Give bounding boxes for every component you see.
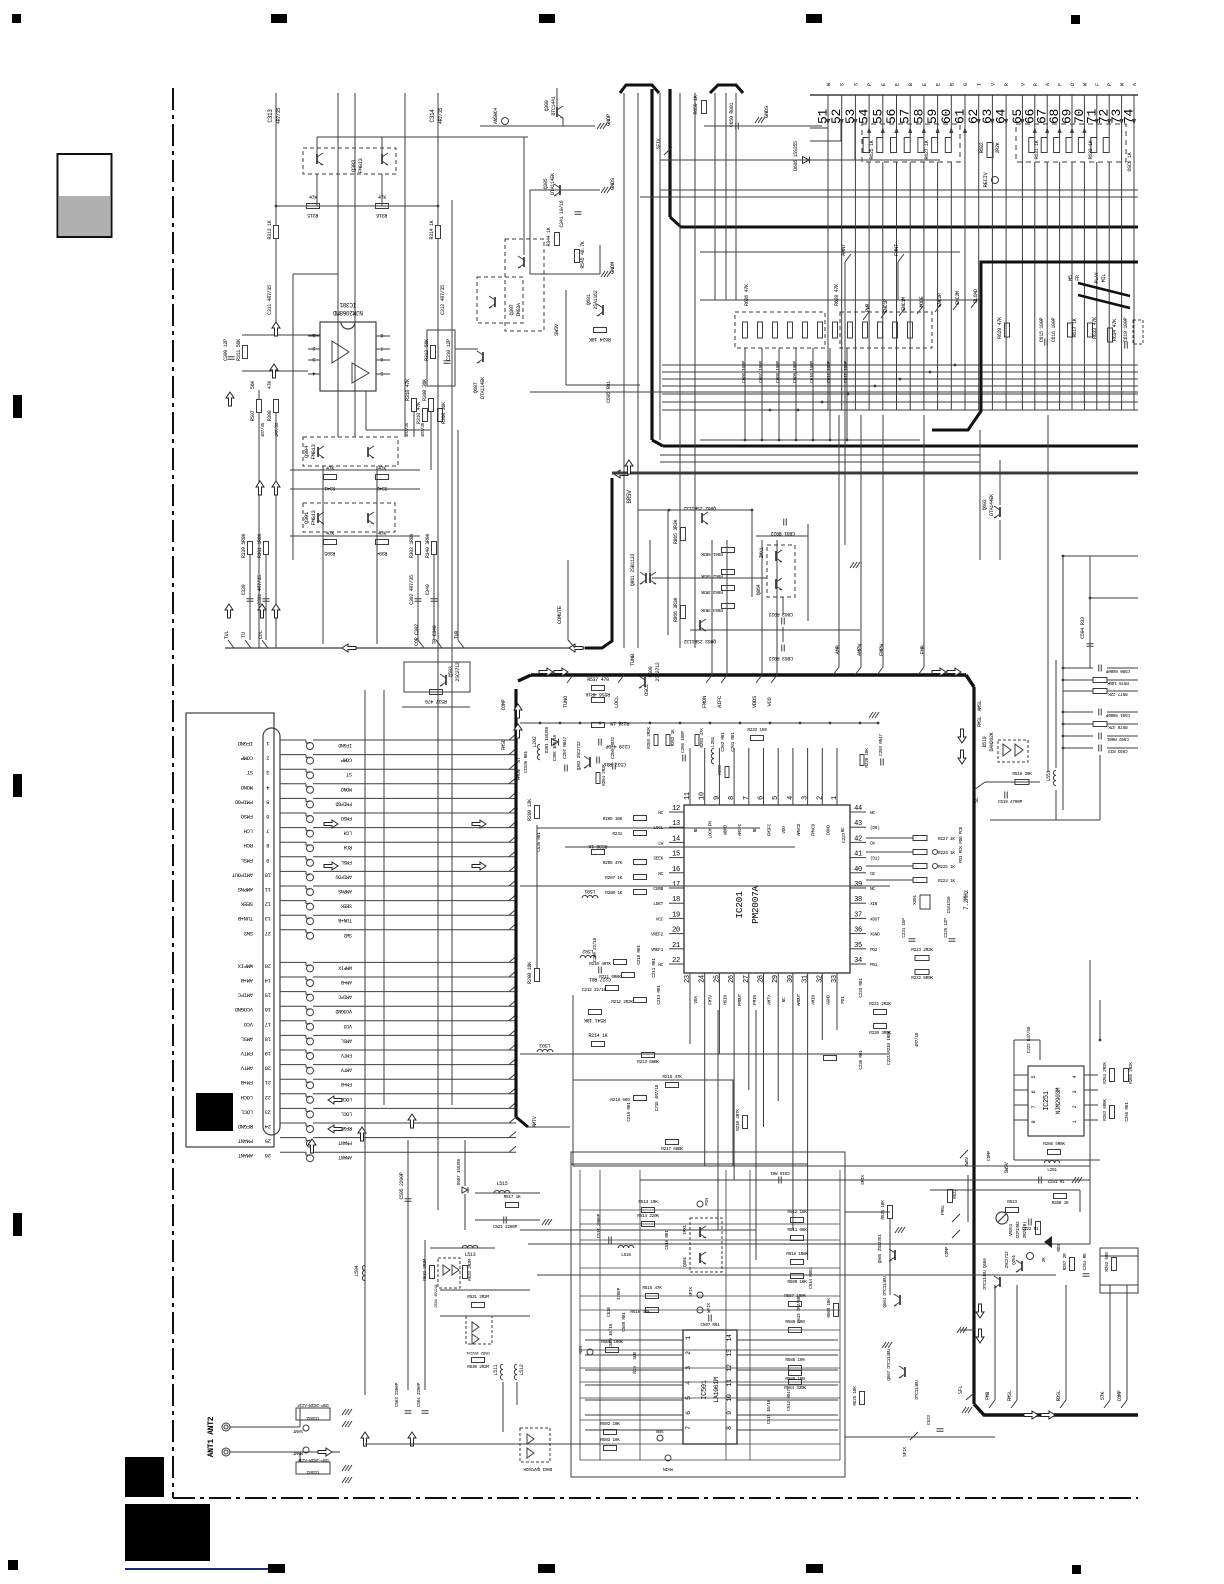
svg-text:A: A: [1132, 83, 1138, 86]
svg-text:FMSL: FMSL: [341, 859, 352, 865]
svg-text:AMTV: AMTV: [341, 1067, 352, 1073]
svg-text:PD1 PCK PD0 PCE: PD1 PCK PD0 PCE: [958, 826, 964, 863]
svg-text:DLOAD: DLOAD: [973, 289, 979, 303]
svg-text:R518 1R8K: R518 1R8K: [786, 1251, 808, 1257]
svg-text:1: 1: [831, 796, 839, 800]
svg-text:2K: 2K: [1041, 1257, 1047, 1262]
svg-text:SWSV: SWSV: [553, 323, 560, 336]
svg-text:26: 26: [265, 1152, 271, 1159]
svg-text:AMIFC: AMIFC: [237, 992, 253, 999]
svg-text:C504 2200P: C504 2200P: [416, 1382, 422, 1407]
svg-text:R541 10K: R541 10K: [584, 1017, 606, 1023]
svg-text:C202 R01: C202 R01: [720, 732, 726, 752]
svg-text:11: 11: [726, 1379, 733, 1387]
svg-text:20: 20: [672, 927, 680, 935]
svg-text:PLAY: PLAY: [1094, 272, 1100, 283]
svg-text:LOCL: LOCL: [241, 1108, 253, 1115]
svg-text:R631 1K: R631 1K: [1034, 140, 1040, 159]
svg-text:19: 19: [265, 1050, 271, 1057]
svg-text:2SC2712: 2SC2712: [455, 662, 461, 681]
svg-text:R201 47K: R201 47K: [699, 728, 705, 748]
svg-text:R222 5R9K: R222 5R9K: [911, 975, 933, 981]
svg-text:C209 22/10: C209 22/10: [592, 937, 598, 962]
svg-text:SUB: SUB: [632, 1352, 638, 1360]
svg-text:22: 22: [265, 1094, 271, 1101]
svg-text:ENC1P: ENC1P: [883, 299, 889, 313]
svg-text:SANT: SANT: [293, 1428, 303, 1434]
svg-text:R865 3R3K: R865 3R3K: [673, 520, 679, 545]
svg-text:W: W: [1082, 83, 1088, 86]
svg-text:NC: NC: [781, 997, 787, 1002]
svg-text:(D1): (D1): [870, 856, 880, 862]
svg-text:41: 41: [854, 851, 862, 859]
svg-text:D503 QAP202K: D503 QAP202K: [523, 1466, 552, 1472]
svg-text:C650 R001: C650 R001: [729, 103, 735, 128]
svg-text:SEEK: SEEK: [653, 856, 663, 862]
svg-text:L513: L513: [465, 1252, 476, 1258]
svg-text:R305: R305: [324, 550, 335, 556]
svg-text:NC: NC: [658, 810, 663, 816]
svg-text:7: 7: [380, 345, 383, 351]
svg-text:VREF2: VREF2: [651, 932, 664, 938]
svg-text:SWSV: SWSV: [1004, 1162, 1010, 1173]
svg-text:IFGND: IFGND: [237, 740, 253, 747]
svg-text:8: 8: [728, 796, 736, 800]
svg-text:OSCL: OSCL: [643, 684, 650, 696]
svg-text:30: 30: [787, 975, 795, 983]
svg-text:R207 1K: R207 1K: [605, 875, 622, 881]
svg-text:C862 R022: C862 R022: [769, 611, 794, 617]
svg-text:COMP: COMP: [944, 1247, 950, 1257]
svg-text:R507: R507: [250, 410, 256, 421]
svg-text:Q603: Q603: [982, 499, 988, 510]
svg-text:VDDS: VDDS: [751, 695, 758, 708]
svg-text:R318 47K: R318 47K: [405, 379, 411, 401]
svg-text:R208 18K: R208 18K: [527, 962, 533, 984]
svg-text:20: 20: [265, 1065, 271, 1072]
svg-text:R233: R233: [717, 765, 723, 775]
svg-text:Q601: Q601: [586, 294, 592, 305]
svg-text:R625 1K: R625 1K: [869, 140, 875, 159]
svg-text:R203 2R2K: R203 2R2K: [646, 727, 652, 749]
svg-text:AIFC: AIFC: [716, 695, 723, 708]
svg-text:C507 R01: C507 R01: [700, 1322, 720, 1328]
svg-text:56K: 56K: [250, 381, 256, 389]
svg-text:Q864: Q864: [756, 584, 762, 595]
svg-text:C592 R001: C592 R001: [1107, 736, 1129, 742]
svg-text:C212 22/10: C212 22/10: [582, 987, 607, 993]
svg-text:16: 16: [265, 1006, 271, 1013]
svg-text:2: 2: [685, 1351, 692, 1355]
svg-text:FMON: FMON: [516, 769, 522, 780]
svg-text:NC: NC: [658, 962, 663, 968]
svg-text:GNDS: GNDS: [609, 177, 616, 190]
svg-text:R265 2R2K: R265 2R2K: [1128, 1062, 1134, 1084]
svg-text:4: 4: [787, 796, 795, 800]
svg-text:1: 1: [1072, 1120, 1078, 1123]
svg-text:C301 4R7/35: C301 4R7/35: [257, 575, 263, 605]
svg-text:LOCH: LOCH: [241, 1094, 253, 1101]
svg-text:R501 100K: R501 100K: [601, 1339, 623, 1345]
svg-text:42: 42: [854, 835, 862, 843]
svg-text:D201 1SS355: D201 1SS355: [544, 726, 550, 753]
svg-text:RDSL: RDSL: [1056, 1390, 1062, 1401]
svg-text:Q301: Q301: [303, 511, 310, 524]
svg-text:R215 47K: R215 47K: [662, 1074, 682, 1080]
svg-text:D501 15V241: D501 15V241: [435, 1284, 439, 1308]
svg-text:24: 24: [264, 1123, 271, 1130]
svg-text:COMP: COMP: [341, 757, 352, 763]
svg-text:R212 2R2K: R212 2R2K: [611, 999, 633, 1005]
svg-text:C309 12P: C309 12P: [223, 339, 229, 361]
svg-text:1: 1: [685, 1336, 692, 1340]
svg-text:PIN: PIN: [704, 1198, 710, 1206]
svg-text:AMSL: AMSL: [977, 700, 983, 711]
svg-text:SL: SL: [974, 797, 980, 803]
svg-text:AGND: AGND: [825, 995, 831, 1005]
svg-text:27: 27: [743, 975, 751, 983]
svg-text:LW: LW: [658, 840, 663, 846]
svg-text:C224 15P: C224 15P: [901, 918, 907, 938]
svg-text:FMG13: FMG13: [310, 444, 317, 459]
svg-text:C312 4R7/35: C312 4R7/35: [440, 285, 446, 315]
svg-text:6: 6: [685, 1411, 692, 1415]
svg-text:C515 R01: C515 R01: [770, 1170, 790, 1176]
svg-text:R312 56K: R312 56K: [424, 339, 430, 361]
svg-text:AMPNS: AMPNS: [237, 886, 253, 893]
svg-text:FMG13: FMG13: [357, 158, 364, 173]
svg-text:R217 68BK: R217 68BK: [661, 1146, 683, 1152]
svg-text:FMTV: FMTV: [240, 1050, 253, 1057]
svg-text:C215 4R7/10: C215 4R7/10: [654, 1084, 660, 1111]
svg-text:NC: NC: [870, 886, 875, 892]
svg-text:Q503: Q503: [448, 666, 454, 677]
svg-text:AMTV: AMTV: [767, 995, 773, 1005]
svg-text:OSC6 1K: OSC6 1K: [1127, 152, 1133, 171]
svg-text:6: 6: [380, 356, 383, 362]
svg-text:C616 100P: C616 100P: [1051, 318, 1057, 343]
svg-text:R315: R315: [307, 212, 318, 218]
svg-text:DTC114EU Q506: DTC114EU Q506: [982, 1258, 988, 1290]
svg-text:C225 12P: C225 12P: [943, 918, 949, 938]
svg-text:IC201: IC201: [734, 891, 745, 919]
svg-text:R226 1K: R226 1K: [938, 850, 955, 856]
svg-text:R208 1K: R208 1K: [605, 890, 622, 896]
svg-text:AMPNS: AMPNS: [338, 888, 352, 894]
svg-text:FMTV: FMTV: [341, 1052, 352, 1058]
svg-text:VCO: VCO: [344, 1023, 352, 1029]
svg-text:R525 10K: R525 10K: [852, 1386, 858, 1406]
svg-text:RDS: RDS: [1056, 1244, 1062, 1252]
svg-text:R866 3R3K: R866 3R3K: [673, 598, 679, 623]
svg-text:R304: R304: [376, 550, 387, 556]
svg-text:Q305: Q305: [543, 178, 549, 189]
svg-text:19: 19: [672, 911, 680, 919]
svg-text:Q504 DTC114EU: Q504 DTC114EU: [882, 1276, 888, 1308]
svg-text:R310 47K: R310 47K: [416, 402, 422, 424]
svg-text:FMANT: FMANT: [338, 1140, 352, 1146]
svg-text:27: 27: [265, 930, 271, 937]
svg-text:P: P: [867, 83, 873, 86]
svg-text:E: E: [936, 83, 942, 86]
svg-text:G: G: [963, 83, 969, 86]
svg-text:2: 2: [816, 796, 824, 800]
svg-text:R224 1K: R224 1K: [938, 878, 955, 884]
svg-text:R502 10K: R502 10K: [600, 1421, 620, 1427]
svg-text:CSS1319: CSS1319: [946, 896, 952, 913]
svg-text:R556 4R1K: R556 4R1K: [586, 691, 611, 697]
svg-text:AMB: AMB: [834, 645, 841, 655]
svg-text:VCOGND: VCOGND: [234, 1006, 253, 1013]
svg-text:C612 100P: C612 100P: [843, 361, 849, 383]
svg-text:C223 R01: C223 R01: [858, 978, 864, 998]
svg-text:FMANT: FMANT: [237, 1138, 253, 1145]
svg-text:TUNO: TUNO: [562, 695, 569, 708]
svg-text:ENC2M: ENC2M: [955, 291, 961, 305]
svg-text:XGND: XGND: [870, 932, 880, 938]
svg-text:R231: R231: [612, 831, 622, 837]
svg-text:ST: ST: [516, 757, 522, 763]
svg-text:R509 10K: R509 10K: [787, 1279, 807, 1285]
svg-text:LOCL: LOCL: [613, 696, 620, 708]
svg-text:R545 48.7K: R545 48.7K: [580, 241, 586, 268]
svg-text:CE: CE: [870, 871, 875, 877]
svg-text:PWR: PWR: [865, 304, 871, 312]
svg-text:C201 R01: C201 R01: [730, 732, 736, 752]
svg-text:MANT: MANT: [293, 1450, 303, 1456]
svg-text:FMSO: FMSO: [501, 739, 507, 750]
svg-text:R232 150: R232 150: [747, 727, 767, 733]
svg-text:F: F: [1095, 83, 1101, 86]
svg-text:29: 29: [772, 975, 780, 983]
svg-text:3: 3: [802, 796, 810, 800]
svg-text:23: 23: [684, 975, 692, 983]
svg-text:C221 R219 1R5K: C221 R219 1R5K: [886, 1031, 892, 1065]
svg-text:CC536 R01: CC536 R01: [523, 751, 529, 773]
svg-text:R508 10K: R508 10K: [826, 1298, 832, 1318]
svg-text:R225 1K: R225 1K: [938, 864, 955, 870]
svg-text:ENC1M: ENC1M: [901, 297, 907, 311]
svg-text:C593 R33: C593 R33: [1108, 748, 1128, 754]
svg-text:F: F: [1058, 83, 1064, 86]
svg-text:R344 1K: R344 1K: [546, 227, 552, 246]
svg-text:25: 25: [713, 975, 721, 983]
svg-text:R633 47K: R633 47K: [1092, 317, 1098, 339]
svg-text:ANT1 ANT2: ANT1 ANT2: [207, 1416, 216, 1457]
svg-text:VDA: VDA: [693, 996, 699, 1004]
svg-text:ENC2P: ENC2P: [937, 293, 943, 307]
svg-text:(D0): (D0): [870, 825, 880, 831]
svg-text:DTA114EK: DTA114EK: [550, 173, 556, 195]
svg-text:35: 35: [854, 942, 862, 950]
svg-text:C591 5900P: C591 5900P: [1105, 712, 1130, 718]
svg-text:21: 21: [264, 1079, 271, 1086]
svg-text:5: 5: [772, 796, 780, 800]
svg-text:R266 5R6K: R266 5R6K: [1043, 1141, 1065, 1147]
svg-text:R204 2R2K: R204 2R2K: [601, 764, 607, 786]
svg-text:AMTV: AMTV: [240, 1065, 253, 1072]
svg-text:FMIFC: FMIFC: [767, 823, 773, 836]
svg-text:R533 2R2M: R533 2R2M: [467, 1259, 473, 1281]
svg-text:TU: TU: [241, 632, 247, 638]
svg-text:IFGND: IFGND: [338, 742, 352, 748]
svg-text:FMIN: FMIN: [752, 995, 758, 1005]
svg-text:R530 2R2M: R530 2R2M: [467, 1364, 489, 1370]
svg-text:Q863 2SB1132: Q863 2SB1132: [683, 638, 716, 644]
svg-text:L201: L201: [710, 737, 716, 747]
svg-text:RCH: RCH: [244, 842, 253, 849]
svg-text:25: 25: [265, 1138, 271, 1145]
svg-text:B: B: [908, 83, 914, 86]
svg-text:FMSL: FMSL: [241, 857, 253, 864]
svg-text:C606 100P: C606 100P: [741, 361, 747, 383]
svg-text:B: B: [949, 83, 955, 86]
svg-text:Q861 2SB1132: Q861 2SB1132: [630, 553, 636, 586]
svg-text:AMIN: AMIN: [811, 995, 817, 1005]
svg-text:C863 R022: C863 R022: [769, 655, 794, 661]
svg-text:NJM2068MD: NJM2068MD: [332, 309, 362, 316]
svg-text:C265 R01: C265 R01: [1124, 1102, 1130, 1122]
svg-text:R340 3R9K: R340 3R9K: [425, 534, 431, 559]
svg-text:FM+B: FM+B: [240, 1079, 253, 1086]
svg-text:C208 100/16: C208 100/16: [552, 734, 558, 761]
svg-text:AMANT: AMANT: [338, 1154, 352, 1160]
svg-text:4: 4: [685, 1381, 692, 1385]
svg-text:Q202 2SC2712: Q202 2SC2712: [576, 741, 582, 770]
svg-text:C211 R01: C211 R01: [651, 958, 657, 978]
svg-text:R202 1K: R202 1K: [670, 729, 676, 746]
svg-text:18: 18: [265, 1035, 271, 1042]
svg-text:FM+B: FM+B: [341, 1081, 352, 1087]
svg-text:8: 8: [1031, 1120, 1037, 1123]
svg-text:LOCH: LOCH: [341, 1096, 352, 1102]
svg-text:VREF1: VREF1: [651, 947, 664, 953]
svg-text:AMTV: AMTV: [532, 1116, 538, 1127]
svg-text:22: 22: [672, 957, 680, 965]
svg-text:6: 6: [1031, 1090, 1037, 1093]
svg-text:R209 12K: R209 12K: [527, 799, 533, 821]
svg-text:FMIFGD: FMIFGD: [335, 800, 352, 806]
svg-text:LDET: LDET: [653, 901, 663, 907]
svg-text:FMPW: FMPW: [878, 643, 885, 656]
svg-text:XOUT: XOUT: [870, 916, 880, 922]
svg-text:C615 100P: C615 100P: [1039, 318, 1045, 343]
svg-text:Q300: Q300: [544, 100, 550, 111]
svg-text:FMON: FMON: [701, 696, 708, 708]
svg-text:PD1: PD1: [870, 962, 878, 968]
svg-text:R308 36K: R308 36K: [422, 379, 428, 401]
svg-text:R578 47K: R578 47K: [1108, 724, 1128, 730]
svg-text:SW2: SW2: [244, 930, 253, 937]
svg-text:R627 1K: R627 1K: [924, 140, 930, 159]
svg-text:COR C302: COR C302: [414, 624, 420, 646]
svg-text:57K: 57K: [1100, 1392, 1106, 1400]
svg-text:S: S: [853, 83, 859, 86]
svg-text:37: 37: [854, 911, 862, 919]
svg-text:L501: L501: [584, 888, 595, 894]
svg-text:P: P: [1107, 83, 1113, 86]
svg-text:R309: R309: [267, 410, 273, 421]
svg-text:R264 2R2K: R264 2R2K: [1102, 1062, 1108, 1084]
svg-text:FMB: FMB: [985, 1392, 991, 1400]
svg-text:4700P: 4700P: [616, 1287, 622, 1300]
svg-text:13: 13: [672, 820, 680, 828]
svg-text:DAN202K: DAN202K: [989, 732, 995, 751]
svg-text:SUB: SUB: [656, 1428, 664, 1434]
svg-text:COMUTE: COMUTE: [556, 605, 563, 624]
svg-text:C340: C340: [425, 584, 431, 595]
svg-text:GNDS: GNDS: [763, 105, 770, 118]
svg-text:S: S: [840, 83, 846, 86]
svg-text:FMG13: FMG13: [310, 510, 317, 525]
svg-text:R314 1K: R314 1K: [429, 220, 435, 239]
svg-text:R205 10K: R205 10K: [603, 816, 623, 822]
svg-text:AM+B: AM+B: [341, 979, 352, 985]
svg-text:AMSL: AMSL: [241, 1035, 253, 1042]
svg-text:BR5V: BR5V: [626, 490, 633, 504]
svg-text:R602: R602: [979, 142, 985, 153]
svg-text:DTC1441: DTC1441: [551, 96, 557, 115]
svg-text:WFIX: WFIX: [706, 1303, 712, 1313]
svg-text:4R7/35: 4R7/35: [274, 422, 280, 437]
svg-text:D: D: [1070, 83, 1076, 86]
svg-text:RECIV: RECIV: [982, 172, 989, 188]
svg-text:IMG3A: IMG3A: [516, 303, 522, 317]
svg-text:17: 17: [265, 1021, 271, 1028]
svg-text:28: 28: [265, 962, 271, 969]
svg-text:13: 13: [265, 915, 271, 922]
svg-text:23: 23: [265, 1108, 271, 1115]
svg-text:MIL: MIL: [1101, 274, 1107, 282]
svg-text:R: R: [1033, 83, 1039, 86]
svg-text:NJM2903M: NJM2903M: [1055, 1087, 1062, 1114]
svg-text:FMVCO: FMVCO: [811, 823, 817, 836]
svg-text:W: W: [826, 83, 832, 86]
svg-text:R538 1K: R538 1K: [588, 843, 607, 849]
svg-text:14: 14: [672, 835, 680, 843]
svg-text:IC501: IC501: [701, 1380, 709, 1400]
svg-text:Q501: Q501: [682, 1257, 688, 1267]
svg-text:C512 R047: C512 R047: [786, 1389, 792, 1411]
svg-text:R221 2R2K: R221 2R2K: [869, 1001, 891, 1007]
svg-text:C508 R01: C508 R01: [621, 1312, 627, 1332]
svg-text:L511: L511: [493, 1364, 499, 1375]
svg-text:C264 R0: C264 R0: [1082, 1253, 1088, 1270]
svg-text:WMFIX: WMFIX: [237, 962, 253, 969]
svg-text:DTA144EK: DTA144EK: [989, 494, 995, 516]
svg-text:2SC2712: 2SC2712: [655, 662, 661, 681]
svg-text:R624 10K: R624 10K: [589, 336, 611, 342]
svg-text:NC: NC: [658, 871, 663, 877]
svg-text:VCO: VCO: [766, 697, 773, 707]
svg-text:M5: M5: [1068, 275, 1074, 281]
svg-text:R206 47K: R206 47K: [603, 860, 623, 866]
svg-text:TUN+B: TUN+B: [237, 915, 253, 922]
svg-text:R311 56K: R311 56K: [236, 339, 242, 361]
svg-text:VCC: VCC: [656, 916, 664, 922]
svg-text:2: 2: [312, 345, 315, 351]
svg-text:11: 11: [264, 886, 271, 893]
svg-text:FMTV: FMTV: [708, 995, 714, 1005]
svg-text:FMNT: FMNT: [893, 243, 900, 256]
svg-text:C522 R1: C522 R1: [1022, 1226, 1039, 1232]
svg-text:PM2007A: PM2007A: [750, 886, 761, 924]
svg-text:C609 100P: C609 100P: [792, 361, 798, 383]
svg-text:C517 3900P: C517 3900P: [596, 1213, 602, 1238]
svg-text:TUN+B: TUN+B: [338, 917, 352, 923]
svg-text:C505 2200P: C505 2200P: [399, 1172, 405, 1199]
svg-text:43: 43: [854, 820, 862, 828]
